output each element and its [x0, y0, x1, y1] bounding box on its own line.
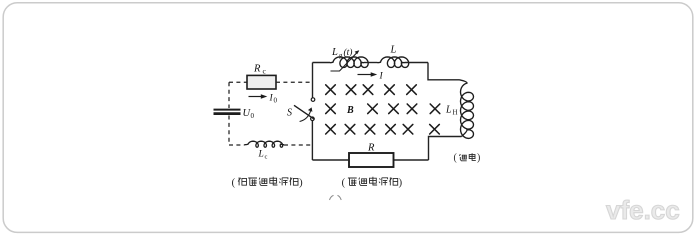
resistor Rc — [247, 64, 276, 90]
wire top right segment — [405, 62, 429, 64]
wire top dashed (Rc to switch node) — [276, 81, 313, 83]
svg-text:L: L — [390, 45, 397, 56]
wire left vertical dashed (bottom) — [228, 116, 230, 146]
wire generator left edge upper — [312, 63, 314, 98]
svg-text:(t): (t) — [344, 47, 353, 58]
caption: (initial flux power source) — [232, 177, 304, 189]
wire generator left edge lower — [311, 121, 313, 160]
wire bottom dashed (capacitor to Lc) — [229, 144, 245, 146]
svg-text:): ) — [299, 177, 303, 189]
partial caption mark ( ) — [330, 195, 342, 200]
resistor R — [349, 143, 394, 168]
svg-text:B: B — [346, 105, 354, 116]
wire left vertical dashed (top) — [228, 82, 230, 108]
caption: (load) — [454, 153, 481, 164]
svg-text:): ) — [477, 153, 480, 164]
inductor LH (load) — [445, 80, 474, 139]
svg-text:(: ( — [232, 177, 236, 189]
svg-text:(: ( — [342, 177, 346, 189]
wire top dashed (capacitor to Rc) — [229, 81, 247, 83]
svg-text:g: g — [339, 52, 343, 60]
wire bottom dashed (Lc to generator loop) — [284, 144, 313, 146]
svg-text:0: 0 — [274, 97, 278, 105]
capacitor U0 — [214, 108, 255, 120]
svg-text:L: L — [331, 47, 338, 58]
magnetic field region B (crosses into page) — [326, 85, 440, 134]
caption: (generator body) — [342, 177, 403, 189]
svg-text:L: L — [445, 105, 452, 116]
switch S — [287, 98, 315, 122]
svg-text:S: S — [287, 108, 292, 119]
svg-text:R: R — [253, 64, 261, 75]
inductor L — [378, 45, 409, 68]
svg-text:0: 0 — [251, 112, 255, 120]
current arrow I0 — [249, 94, 278, 105]
svg-text:R: R — [367, 143, 375, 154]
wire bottom left segment — [312, 159, 349, 161]
svg-text:H: H — [453, 109, 458, 117]
svg-text:): ) — [399, 177, 403, 189]
svg-text:vfe.cc: vfe.cc — [606, 195, 680, 225]
current arrow I — [358, 72, 384, 82]
wire bottom right segment — [394, 159, 429, 161]
svg-text:c: c — [265, 154, 268, 161]
wire right edge upper + step to load — [428, 63, 460, 80]
inductor Lc — [245, 141, 285, 160]
wire top left segment — [313, 62, 331, 64]
wire top middle segment — [364, 62, 378, 64]
svg-text:L: L — [258, 150, 264, 160]
wire from load bottom + right edge lower — [429, 137, 462, 161]
inductor Lg(t) — [330, 47, 368, 71]
